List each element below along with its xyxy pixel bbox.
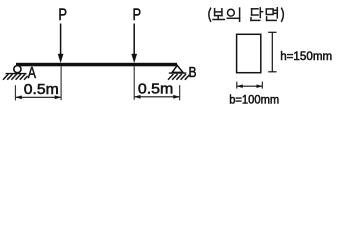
- extension line under P1: [60, 66, 62, 100]
- section rectangle: [237, 34, 261, 72]
- load P1 arrow: [58, 24, 63, 63]
- support B ground line: [169, 72, 187, 74]
- support A hatching: [3, 74, 28, 80]
- support A (pin circle): [14, 66, 21, 73]
- svg-text:B: B: [189, 64, 197, 81]
- hangul 단: [251, 8, 263, 21]
- h dimension line: [268, 32, 276, 72]
- dimension line left 0.5m: [16, 96, 61, 99]
- extension tick at B: [179, 85, 181, 100]
- svg-text:P: P: [133, 5, 142, 24]
- extension line under P2: [133, 66, 135, 100]
- svg-text:h=150mm: h=150mm: [280, 49, 332, 63]
- b dimension line: [237, 82, 262, 89]
- svg-text:0.5m: 0.5m: [24, 82, 59, 98]
- svg-text:A: A: [28, 65, 37, 82]
- svg-text:P: P: [58, 5, 67, 24]
- (: [209, 8, 211, 21]
- support A ground line: [6, 73, 27, 75]
- support B hatching: [168, 74, 189, 80]
- extension tick at A: [14, 85, 16, 100]
- load P2 arrow: [132, 24, 137, 63]
- support B (triangle): [172, 65, 183, 72]
- hangul 의: [227, 8, 239, 21]
- svg-text:0.5m: 0.5m: [138, 82, 173, 98]
- ): [282, 8, 284, 21]
- section title "(보의 단면)" hand-drawn hangul: [209, 8, 284, 22]
- svg-text:b=100mm: b=100mm: [229, 93, 279, 107]
- hangul 보: [213, 9, 224, 20]
- hangul 면: [266, 8, 277, 21]
- dimension line right 0.5m: [134, 95, 179, 98]
- beam AB: [16, 63, 177, 67]
